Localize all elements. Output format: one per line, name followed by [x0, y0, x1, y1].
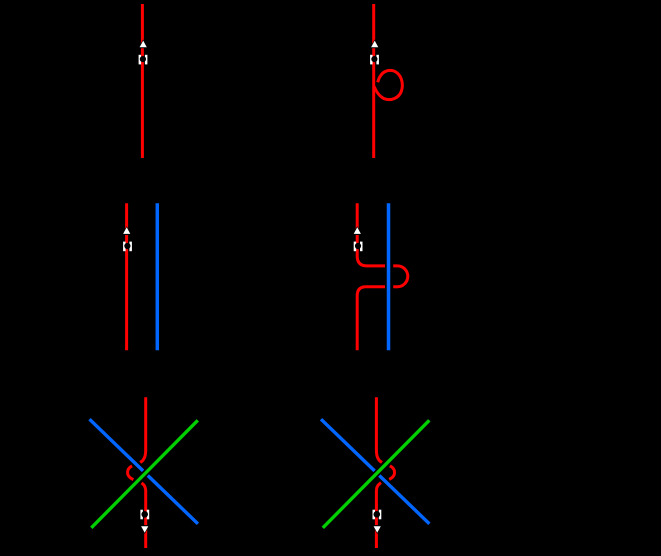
label dot: [141, 511, 148, 518]
label frame left bar: [140, 510, 143, 520]
wire: straight red strand R1-right: [372, 4, 375, 158]
wire: blue strand R3-left lower segment (under green): [148, 476, 198, 524]
wire: red strand with leftward detour (passes under blue and green): [128, 397, 146, 548]
label frame right bar: [360, 242, 363, 252]
label dot: [374, 511, 381, 518]
orientation arrow up: [123, 227, 130, 234]
orientation arrow up (halo): [122, 226, 132, 235]
label frame left bar: [123, 242, 126, 252]
orientation arrow up (halo): [353, 226, 363, 235]
label dot: [140, 56, 146, 62]
orientation arrow down (halo): [140, 525, 150, 534]
wire: straight red strand R1-left: [141, 4, 144, 158]
wire: blue strand R3-left upper segment: [90, 419, 144, 471]
label frame left bar: [370, 55, 373, 65]
wire: red strand poked across: [357, 203, 408, 350]
label frame right bar: [147, 510, 150, 520]
wire: loop of the kink: [374, 70, 402, 99]
wire: blue strand R2-right: [387, 203, 391, 350]
wire: green strand R3-left: [91, 420, 198, 528]
crossing gap lower (red under blue): [385, 281, 393, 292]
wire: green strand R3-right: [323, 420, 430, 528]
wire: red strand with rightward detour (passes under green and blue): [376, 397, 394, 548]
crossing gap upper (red under blue): [385, 260, 393, 271]
orientation arrow down: [374, 526, 381, 533]
label dot: [355, 243, 361, 249]
orientation arrow up (halo): [370, 39, 380, 48]
label frame left bar: [354, 242, 357, 252]
label dot: [124, 243, 130, 249]
wire: blue strand R2-left: [156, 203, 160, 350]
orientation arrow down: [141, 526, 148, 533]
orientation arrow down (halo): [372, 525, 382, 534]
wire: red strand R2-left: [125, 203, 128, 350]
label frame right bar: [129, 242, 132, 252]
label dot: [371, 56, 377, 62]
orientation arrow up: [140, 41, 147, 48]
orientation arrow up: [354, 227, 361, 234]
orientation arrow up (halo): [138, 39, 148, 48]
wire: blue strand R3-right upper segment: [321, 419, 375, 471]
label frame left bar: [139, 55, 142, 65]
label frame left bar: [373, 510, 376, 520]
wire: blue strand R3-right lower segment (under green): [379, 476, 429, 524]
label frame right bar: [145, 55, 148, 65]
label frame right bar: [379, 510, 382, 520]
orientation arrow up: [371, 41, 378, 48]
label frame right bar: [376, 55, 379, 65]
